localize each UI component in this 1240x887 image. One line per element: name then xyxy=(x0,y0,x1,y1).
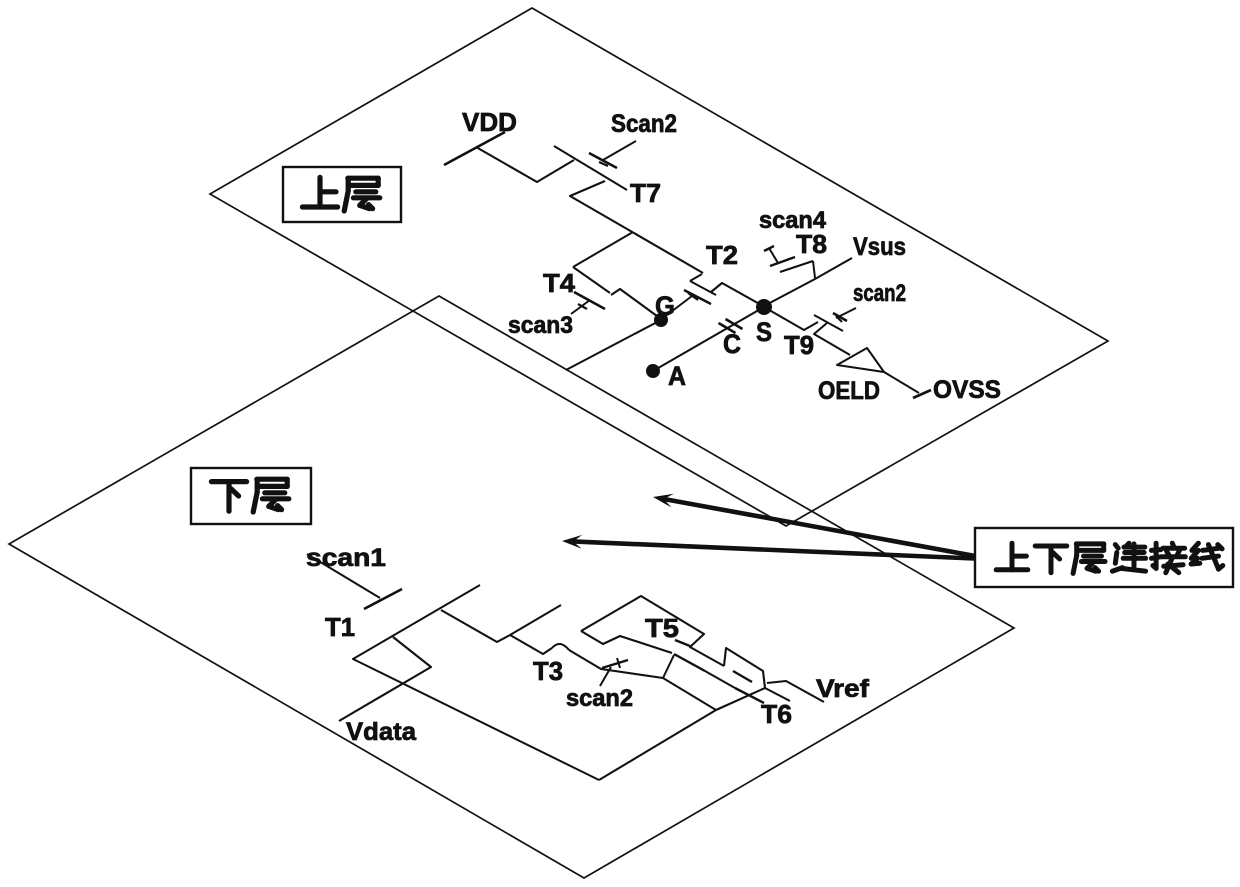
power OVSS label xyxy=(933,376,1001,404)
arrow to upper connection xyxy=(653,494,986,558)
wire T5 to T6 xyxy=(724,648,790,701)
svg-text:Vref: Vref xyxy=(816,675,870,703)
arrow to lower connection xyxy=(562,535,986,559)
svg-text:S: S xyxy=(756,317,772,347)
svg-text:scan1: scan1 xyxy=(306,544,386,572)
label OELD xyxy=(818,377,880,405)
upper layer outline xyxy=(210,8,1108,526)
wire scan4 to T8 gate xyxy=(764,246,778,263)
svg-text:T2: T2 xyxy=(706,240,738,270)
transistor T3 xyxy=(510,635,663,678)
node A xyxy=(646,364,660,378)
svg-text:T8: T8 xyxy=(796,229,827,259)
svg-text:T6: T6 xyxy=(761,699,792,729)
wire T6 to Vref xyxy=(767,681,824,702)
transistor T1 xyxy=(353,585,599,780)
label T1 xyxy=(325,612,355,642)
diode OELD xyxy=(837,348,884,372)
node G xyxy=(654,313,668,327)
power Vref label xyxy=(816,675,870,703)
svg-text:scan2: scan2 xyxy=(853,280,906,307)
wire T5 source xyxy=(581,596,724,666)
svg-text:A: A xyxy=(668,361,686,391)
wire scan3 to T4 gate xyxy=(571,300,590,314)
wire T1 to T6 xyxy=(599,688,765,780)
svg-text:T3: T3 xyxy=(533,656,563,686)
svg-text:OVSS: OVSS xyxy=(933,376,1001,404)
label box 下层 xyxy=(191,468,311,524)
label T7 xyxy=(630,178,661,208)
label T2 xyxy=(706,240,738,270)
wire scan1 to T1 gate xyxy=(307,554,380,598)
wire T1 to T3 xyxy=(441,610,510,642)
svg-text:T1: T1 xyxy=(325,612,355,642)
wire scan2 to T9 gate xyxy=(836,308,856,322)
label A xyxy=(668,361,686,391)
power OVSS terminal xyxy=(913,390,931,398)
wire node G to T2 gate xyxy=(663,293,698,318)
transistor T4 xyxy=(573,267,610,309)
signal scan2 lower label xyxy=(566,685,633,712)
transistor T2 xyxy=(684,274,763,306)
svg-text:OELD: OELD xyxy=(818,377,880,405)
power Vdata label xyxy=(346,718,417,746)
label box 上层 xyxy=(283,167,401,222)
node S xyxy=(756,299,772,315)
power VDD terminal xyxy=(444,132,505,165)
wire T7 drain to T2 xyxy=(570,181,703,273)
label box 上下层连接线 xyxy=(975,528,1233,587)
signal scan4 label xyxy=(759,207,827,234)
wire node G via stub xyxy=(566,320,661,370)
svg-text:scan2: scan2 xyxy=(566,685,633,712)
lower layer outline xyxy=(9,296,1014,878)
svg-text:C: C xyxy=(723,329,741,359)
svg-text:T4: T4 xyxy=(543,268,576,298)
signal scan3 label xyxy=(508,312,573,339)
wire loop left xyxy=(663,655,716,710)
svg-text:T9: T9 xyxy=(784,330,814,360)
wire T3 to T5 xyxy=(581,631,672,653)
svg-text:scan3: scan3 xyxy=(508,312,573,339)
label T9 xyxy=(784,330,814,360)
transistor T9 xyxy=(764,307,850,355)
power VDD label xyxy=(462,107,517,137)
label T3 xyxy=(533,656,563,686)
svg-text:Vsus: Vsus xyxy=(853,233,906,261)
label S xyxy=(756,317,772,347)
svg-text:Vdata: Vdata xyxy=(346,718,417,746)
svg-text:T5: T5 xyxy=(645,613,679,643)
signal scan2 upper label xyxy=(853,280,906,307)
transistor T5 xyxy=(674,640,705,671)
label T8 xyxy=(796,229,827,259)
wire Vdata to T1 xyxy=(339,637,431,721)
transistor T8 xyxy=(764,257,852,306)
label C xyxy=(723,329,741,359)
power Vsus label xyxy=(853,233,906,261)
wire scan2 to T3 gate xyxy=(600,658,628,686)
wire OELD to OVSS xyxy=(884,372,919,393)
wire via stub lower xyxy=(510,605,561,635)
svg-text:VDD: VDD xyxy=(462,107,517,137)
label G xyxy=(655,291,675,321)
signal scan1 label xyxy=(306,544,386,572)
wire T5 drain to T6 source xyxy=(705,671,735,688)
transistor T7 xyxy=(554,146,627,190)
label T4 xyxy=(543,268,576,298)
svg-text:Scan2: Scan2 xyxy=(611,110,677,138)
capacitor C xyxy=(653,307,764,371)
wire VDD to T7 source xyxy=(476,147,574,182)
wire branch to T4 xyxy=(573,232,633,267)
wire T4 drain to node G xyxy=(611,289,661,319)
transistor T6 xyxy=(733,671,764,703)
wire Scan2 to T7 gate xyxy=(599,141,636,166)
label T5 xyxy=(645,613,679,643)
signal Scan2 label xyxy=(611,110,677,138)
label T6 xyxy=(761,699,792,729)
svg-text:T7: T7 xyxy=(630,178,661,208)
